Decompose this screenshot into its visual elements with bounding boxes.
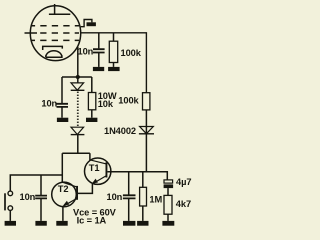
capacitor C6 minus plate bbox=[164, 184, 174, 188]
resistor R5 bottom lead bbox=[142, 206, 144, 221]
svg-text:4k7: 4k7 bbox=[176, 199, 191, 209]
wire T2 emitter to ground bbox=[62, 207, 64, 221]
wire down to C2 bbox=[61, 77, 63, 103]
transistor T1 circle bbox=[85, 158, 111, 184]
transistor T1 emitter arrow bbox=[92, 179, 98, 184]
transistor T2 emitter arrow bbox=[63, 201, 69, 206]
diode D2 triangle bbox=[71, 127, 84, 134]
resistor R2 100k body bbox=[143, 93, 150, 110]
connector J1 sleeve contact bbox=[8, 206, 13, 211]
svg-text:1M: 1M bbox=[149, 194, 162, 204]
ground under C2 bbox=[57, 118, 68, 122]
diode D1 triangle bbox=[71, 83, 84, 90]
ground under R5 bbox=[137, 221, 148, 226]
wire D2 to tee bbox=[77, 135, 79, 154]
ground under R6 bbox=[162, 221, 174, 226]
wire cathode row to C2 and R3 bbox=[62, 76, 92, 78]
capacitor C2 10n plates bbox=[57, 104, 69, 107]
wire down to R5 bbox=[142, 172, 144, 188]
svg-text:T2: T2 bbox=[58, 184, 69, 194]
capacitor C1 plates bbox=[93, 49, 105, 52]
resistor R1 100k top lead bbox=[113, 33, 115, 41]
resistor R1 body bbox=[109, 41, 117, 62]
transistor T1 collector line bbox=[90, 160, 106, 164]
wire T1 emitter to T2 base bbox=[78, 184, 92, 193]
valve V1 heater dome bbox=[46, 51, 62, 58]
connector J1 body bbox=[4, 193, 6, 210]
resistor R6 bottom lead bbox=[167, 214, 169, 221]
node cathode junction dot bbox=[76, 75, 80, 79]
wire input to grid node bbox=[10, 175, 62, 191]
wire tee left to T2 collector bbox=[61, 153, 63, 182]
resistor R3 10W 10k body bbox=[88, 93, 95, 110]
resistor R1 bottom lead bbox=[113, 63, 115, 67]
svg-text:100k: 100k bbox=[118, 96, 139, 106]
top cap clip connector bbox=[81, 20, 92, 27]
wire C6 to R6 bbox=[167, 188, 169, 195]
resistor R3 bottom lead bbox=[91, 110, 93, 118]
ground under R3 bbox=[86, 118, 97, 122]
svg-text:10n: 10n bbox=[107, 192, 123, 202]
transistor T2 collector line bbox=[62, 182, 76, 187]
valve V1 cathode bracket bbox=[43, 46, 63, 50]
valve V1 grid g1 lead stub bbox=[25, 32, 38, 34]
wire down to C4 bbox=[40, 175, 42, 195]
valve V1 anode plate bbox=[49, 13, 70, 15]
transistor T1 base bar bbox=[106, 162, 108, 177]
svg-text:1N4002: 1N4002 bbox=[104, 126, 136, 136]
wire cathode lead down from V1 bbox=[77, 47, 79, 83]
wire down to R3 bbox=[91, 77, 93, 93]
diode D1 cathode bar bbox=[71, 89, 85, 91]
wire dotted diode chain bbox=[77, 92, 79, 127]
wire J1 sleeve to ground bbox=[9, 210, 11, 221]
valve V1 grid g3 dashed bbox=[31, 25, 79, 27]
diode D3 cathode bar bbox=[139, 133, 154, 135]
valve V1 envelope bbox=[30, 6, 80, 61]
connector J1 tip contact bbox=[8, 191, 13, 196]
ground under T2 bbox=[56, 221, 67, 226]
svg-text:10n: 10n bbox=[20, 192, 36, 202]
capacitor C2 bottom lead bbox=[61, 107, 63, 117]
valve V1 grid g1 dashed bbox=[31, 39, 79, 41]
wire R2 to D3 bbox=[145, 110, 147, 172]
capacitor C1 10n top lead bbox=[98, 33, 100, 49]
transistor T2 base bar bbox=[76, 186, 78, 200]
capacitor C5 bottom lead bbox=[128, 199, 130, 221]
transistor T2 emitter line bbox=[63, 199, 76, 207]
svg-text:10k: 10k bbox=[98, 99, 114, 109]
ground under C4 bbox=[35, 221, 46, 226]
capacitor C5 10n plates bbox=[123, 195, 136, 198]
resistor R5 1M body bbox=[140, 187, 147, 206]
svg-text:4µ7: 4µ7 bbox=[176, 177, 191, 187]
ground under C1 bbox=[93, 67, 104, 71]
svg-text:10n: 10n bbox=[78, 47, 94, 57]
svg-text:10n: 10n bbox=[41, 98, 57, 108]
resistor R6 4k7 body bbox=[164, 195, 172, 214]
capacitor C4 10n plates bbox=[35, 196, 47, 199]
ground under C5 bbox=[123, 221, 135, 226]
svg-text:Ic = 1A: Ic = 1A bbox=[77, 216, 107, 226]
transistor T2 circle bbox=[52, 182, 77, 207]
ground under J1 bbox=[5, 221, 16, 226]
wire tee right to T1 collector bbox=[89, 153, 91, 160]
diode D3 1N4002 triangle bbox=[140, 127, 154, 134]
transistor T1 emitter line bbox=[92, 176, 105, 184]
capacitor C1 bottom lead bbox=[98, 53, 100, 67]
capacitor C6 4u7 plus plate bbox=[164, 180, 173, 183]
diode D2 cathode bar bbox=[71, 134, 85, 136]
wire top rail from tube g2 to right column bbox=[81, 33, 147, 93]
svg-text:T1: T1 bbox=[89, 163, 100, 173]
valve V1 grid g2 dashed bbox=[40, 32, 79, 34]
wire tee bar bbox=[62, 152, 90, 154]
capacitor C4 bottom lead bbox=[40, 199, 42, 221]
svg-text:100k: 100k bbox=[121, 48, 142, 58]
wire down to C5 bbox=[128, 172, 130, 195]
valve V1 anode lead bbox=[54, 4, 56, 14]
wire base row of T1 to output corner bbox=[107, 172, 167, 180]
ground under R1 bbox=[108, 67, 120, 71]
